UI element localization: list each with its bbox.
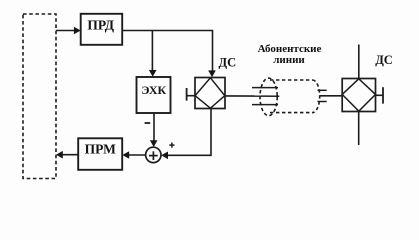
label Абонентские линии: [258, 43, 322, 66]
wire: cable to ДС2: [320, 95, 343, 97]
dashed terminal-equipment box: [23, 14, 56, 179]
svg-text:ПРМ: ПРМ: [85, 142, 116, 157]
wire: ПРД output east then south into ДС1 top (arrow): [122, 31, 216, 78]
ДС2 bottom line stub: [358, 111, 360, 145]
svg-text:ПРД: ПРД: [87, 17, 114, 32]
wire: summing node to ПРМ (arrow): [122, 151, 145, 159]
wire: ДС1 bottom south then west into summing node (arrow): [161, 109, 211, 160]
block ПРД: [81, 14, 123, 45]
subscriber cable symbol: dashed capsule with end ellipse: [260, 78, 320, 116]
ДС1 balance port stub and tick: [187, 88, 195, 101]
summing node circle with plus: [146, 147, 161, 162]
ДС2 top line stub: [358, 45, 360, 79]
svg-text:линии: линии: [273, 54, 305, 66]
wire: dashed box to ПРД with arrow: [56, 27, 81, 34]
svg-text:ДС: ДС: [375, 53, 393, 67]
svg-text:ЭХК: ЭХК: [141, 83, 166, 97]
block ПРМ: [78, 138, 122, 170]
svg-text:ДС: ДС: [219, 55, 237, 69]
label plus: [169, 143, 174, 148]
ДС2 balance port stub and tick: [376, 87, 384, 103]
block ЭХК: [137, 77, 171, 113]
cable through-wires: [252, 88, 327, 105]
wire: ПРМ to dashed box (arrow): [56, 151, 78, 159]
hybrid ДС1: square with inscribed diamond: [195, 78, 225, 109]
wire: ДС1 line port to subscriber cable: [225, 95, 261, 97]
wire: ЭХК output down into summing node (arrow): [150, 113, 158, 147]
label minus: [145, 122, 151, 124]
wire: branch down into ЭХК top (arrow): [149, 31, 157, 77]
hybrid ДС2: square with inscribed diamond: [342, 79, 375, 112]
